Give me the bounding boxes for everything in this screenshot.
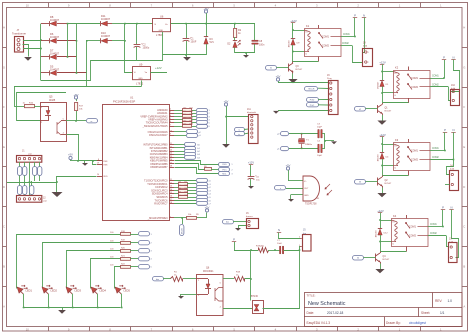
transistor Q2 BC547 (382, 166, 384, 176)
wire opto collector (66, 120, 76, 122)
title block frame (305, 293, 463, 327)
svg-text:5: 5 (170, 118, 171, 120)
wire P to R19 (234, 250, 258, 252)
svg-text:D: D (3, 185, 5, 189)
svg-text:K1: K1 (306, 24, 310, 28)
wire bridge vertical c (86, 41, 88, 87)
wire J4 pin2 stub (445, 184, 450, 186)
svg-text:D: D (463, 185, 465, 189)
wire K4 bottom (380, 241, 392, 243)
svg-text:B: B (463, 265, 465, 269)
crystal Y1 20MHz (301, 134, 303, 139)
wire K3 contact common return (383, 175, 409, 177)
net flag tx bluetooth (235, 132, 245, 136)
svg-text:Prog: Prog (327, 77, 332, 80)
svg-text:1N4007: 1N4007 (378, 81, 380, 89)
svg-text:P: P (233, 238, 235, 242)
LED LED3 (64, 282, 77, 295)
svg-text:GND: GND (159, 30, 164, 32)
wire rectified rail to C2 (125, 23, 153, 25)
svg-text:17: 17 (170, 199, 172, 201)
svg-text:1/1: 1/1 (440, 311, 445, 315)
wire crystal caps to ground (322, 133, 325, 135)
net flags switch row 1 (19, 162, 21, 167)
wire K1 COM2 to J8 (353, 46, 363, 63)
flyback diode D12 1N4007 (380, 220, 382, 229)
svg-text:Date:: Date: (307, 311, 315, 315)
svg-text:H: H (3, 26, 5, 30)
pin VDD 20 (97, 176, 102, 178)
svg-text:COM2: COM2 (411, 159, 419, 162)
svg-text:19: 19 (97, 163, 99, 165)
svg-text:bluetooth: bluetooth (247, 111, 257, 114)
connector J5 fan (303, 235, 312, 252)
resistor R18 1k (235, 277, 245, 282)
svg-text:GND: GND (304, 195, 309, 197)
svg-text:COM1: COM1 (430, 224, 437, 226)
svg-text:1N4007: 1N4007 (376, 229, 378, 237)
wire rectified rail to U9 (125, 24, 133, 73)
svg-text:COM2: COM2 (342, 43, 349, 45)
svg-text:+12V: +12V (155, 66, 162, 70)
svg-text:V-: V- (394, 95, 396, 97)
svg-text:+5V: +5V (73, 93, 78, 97)
svg-text:1000u: 1000u (143, 47, 150, 50)
connector J11 bluetooth (249, 115, 259, 144)
net flag zero-cross out (76, 120, 86, 122)
capacitor C7 10nF (280, 246, 281, 254)
svg-text:F: F (463, 105, 465, 109)
net flag MCLR prog (305, 87, 318, 91)
svg-text:N: N (363, 14, 365, 18)
capacitor C1 10UF (186, 24, 188, 38)
svg-text:1N4007: 1N4007 (101, 34, 111, 38)
svg-text:1N4007: 1N4007 (289, 39, 291, 47)
svg-text:16: 16 (170, 196, 172, 198)
svg-text:COM2: COM2 (411, 86, 419, 89)
ground LED bus (62, 308, 64, 311)
ground TSOP (288, 199, 294, 202)
svg-text:COM1: COM1 (343, 34, 350, 36)
LED LED4 (89, 282, 102, 295)
svg-text:22: 22 (170, 146, 172, 148)
flyback diode D1 1N4007 (382, 72, 384, 81)
svg-text:PIC16F2626-ESP: PIC16F2626-ESP (113, 100, 135, 104)
diode D11 1N4007 (101, 21, 108, 26)
ground transformer (24, 57, 32, 61)
pin VSS 19 (97, 164, 102, 166)
svg-text:COM2: COM2 (409, 235, 417, 238)
wire LED2 to ground bus (48, 294, 50, 308)
wire Q6 cathode to ground (181, 294, 197, 296)
resistor R16 (25, 105, 35, 108)
svg-text:N: N (450, 206, 452, 210)
wire LED4 to ground bus (97, 294, 99, 308)
svg-text:3: 3 (232, 174, 233, 176)
svg-text:27: 27 (170, 162, 172, 164)
net flag PGC prog (307, 103, 319, 107)
resistor R9 10k pullup (187, 217, 197, 220)
svg-text:COM1: COM1 (411, 150, 419, 153)
svg-text:LED5: LED5 (124, 289, 131, 293)
svg-text:20: 20 (97, 174, 99, 176)
net flag LED4 (139, 257, 150, 261)
svg-text:COM1: COM1 (411, 77, 419, 80)
regulator U9 L7812 (133, 67, 151, 80)
svg-text:dim: dim (156, 279, 160, 281)
IR arrows into TSOP (325, 184, 332, 195)
resistor R1 1k (171, 277, 183, 282)
wire +5V rail (171, 23, 255, 25)
svg-text:26: 26 (170, 159, 172, 161)
svg-text:GND: GND (138, 78, 143, 80)
wire Q6 pin6 to R18 (223, 278, 234, 280)
net label COM1 K3 (430, 150, 445, 152)
wire Q6 pin4 to triac (223, 308, 252, 310)
border zone ticks top/bottom (48, 3, 50, 8)
svg-text:LED2: LED2 (51, 289, 58, 293)
net flags switch row 2 (19, 181, 21, 186)
ground Q1 (382, 115, 384, 121)
wire buzzer pin2 to ground (239, 226, 247, 229)
microcontroller U1 PIC16F2626-ESP (103, 105, 170, 221)
svg-text:H: H (463, 26, 465, 30)
ground Q6 (178, 296, 184, 299)
svg-text:V-: V- (392, 244, 394, 246)
ground at VSS (84, 161, 86, 163)
svg-text:8: 8 (98, 159, 99, 161)
wire K1 top (293, 30, 305, 32)
svg-text:U6: U6 (160, 15, 164, 19)
svg-text:P: P (354, 14, 356, 18)
svg-text:U9: U9 (139, 62, 143, 66)
wire LED3 to ground bus (72, 294, 74, 308)
net flag LED1 (139, 232, 150, 236)
svg-text:Q5: Q5 (49, 94, 53, 98)
net flag ir out (275, 186, 286, 190)
relay K3 (394, 143, 431, 171)
svg-text:10pF: 10pF (317, 126, 323, 128)
net flag MCLR vertical (182, 218, 184, 224)
svg-text:J10: J10 (451, 84, 456, 87)
power flag +5V bluetooth (224, 103, 227, 106)
wire LED5 to ground bus (121, 294, 123, 308)
wire K2 contact common return (383, 102, 409, 104)
relay K1 contact pins (318, 25, 320, 29)
connector J4 load (450, 171, 459, 191)
net flag LED3 (139, 249, 150, 253)
svg-text:KBI3/PGD/RB7: KBI3/PGD/RB7 (150, 166, 168, 169)
svg-text:PGD: PGD (310, 100, 315, 102)
wire K2 bottom (382, 92, 394, 94)
connector J6 buzzer (247, 219, 259, 229)
svg-text:BT136: BT136 (251, 296, 258, 298)
svg-text:TITLE:: TITLE: (307, 294, 316, 298)
svg-text:24: 24 (170, 153, 172, 155)
svg-text:MCLR: MCLR (309, 88, 315, 90)
resistor R19 47 (259, 248, 269, 253)
net flag buzzer (223, 220, 234, 224)
svg-text:LED4: LED4 (100, 289, 107, 293)
wire K4 top (380, 220, 392, 222)
svg-text:2: 2 (170, 108, 171, 110)
ground Q4 (380, 264, 382, 270)
wire LED2 column (43, 243, 121, 289)
wire ground bus regulators (137, 60, 162, 62)
svg-text:Transformer: Transformer (12, 32, 26, 36)
ground bluetooth (222, 144, 230, 148)
svg-text:New Schematic: New Schematic (308, 301, 346, 307)
svg-text:Sheet:: Sheet: (421, 311, 430, 315)
svg-text:1N4007: 1N4007 (50, 35, 60, 39)
wire U9 output +12V (150, 72, 167, 74)
svg-text:MOC3021: MOC3021 (203, 271, 214, 273)
svg-text:BC547: BC547 (383, 259, 390, 261)
wire crystal top (289, 133, 318, 135)
wire transformer pin3 (23, 48, 41, 50)
capacitor C3 10pF (318, 130, 319, 138)
wire K2 top (382, 71, 394, 73)
svg-text:+5V: +5V (205, 205, 210, 209)
svg-text:TSOP1738: TSOP1738 (305, 204, 317, 206)
diode D5 1N4007 (41, 72, 49, 74)
svg-text:A: A (463, 304, 465, 308)
wire K4 COM2 to J3 (447, 236, 449, 247)
wire K4 contact common return (381, 251, 407, 253)
diode D10 1N4007 (101, 38, 108, 43)
svg-text:+5V: +5V (286, 164, 291, 168)
svg-text:BC547: BC547 (385, 183, 392, 185)
wire switch common (29, 162, 31, 196)
wire bluetooth ground drop (226, 117, 228, 144)
svg-text:18: 18 (170, 202, 172, 204)
resistor R17 10k (74, 96, 77, 99)
wire TSOP GND (291, 194, 303, 196)
connector J1 switches (17, 156, 42, 163)
wire LED3 column (67, 251, 121, 289)
svg-text:28: 28 (170, 166, 172, 168)
net label COM2 K3 (430, 159, 454, 161)
svg-text:R19(47): R19(47) (256, 245, 264, 247)
svg-text:G: G (3, 65, 5, 69)
svg-text:+5V: +5V (68, 153, 73, 157)
svg-text:BC547: BC547 (296, 69, 303, 71)
wire LED ground bus (23, 307, 121, 309)
svg-text:1N4007: 1N4007 (101, 17, 111, 21)
svg-text:12: 12 (170, 182, 172, 184)
svg-text:10: 10 (26, 3, 30, 7)
svg-text:LED3: LED3 (75, 289, 82, 293)
svg-text:14: 14 (170, 189, 172, 191)
relay K3 contact pins (408, 139, 410, 143)
svg-text:1N4007: 1N4007 (50, 51, 60, 55)
wire U9 ground to bus (141, 81, 143, 87)
svg-text:B: B (3, 265, 5, 269)
regulator U6 L7805 (153, 19, 171, 32)
net label COM1 K2 (430, 78, 444, 80)
ground prog (273, 111, 279, 114)
power flag +5V rail (204, 10, 207, 13)
svg-text:6: 6 (170, 121, 171, 123)
relay K1 (305, 29, 342, 57)
svg-text:7: 7 (170, 124, 171, 126)
power flag +5V prog (276, 78, 279, 81)
svg-text:10: 10 (170, 130, 172, 132)
svg-text:10: 10 (26, 327, 30, 331)
relay K2 contact pins (408, 67, 410, 71)
wire R18 to triac gate node (245, 279, 251, 301)
diode D6 1N4007 (41, 40, 49, 42)
svg-text:L7812: L7812 (136, 81, 144, 85)
wire LED1 to ground bus (23, 294, 25, 308)
diode D7 1N4007 (41, 56, 49, 58)
svg-text:E: E (3, 145, 5, 149)
net label COM2 K1 (341, 45, 352, 47)
relay K4 contact pins (406, 215, 408, 219)
svg-text:21: 21 (170, 143, 172, 145)
svg-text:2017-02-18: 2017-02-18 (327, 311, 344, 315)
LED LED1 (15, 282, 28, 295)
svg-text:P: P (442, 206, 444, 210)
connector J7 Transformer (15, 37, 24, 53)
wire prog ground (278, 110, 328, 112)
svg-text:OSC1/CLKI/RA7: OSC1/CLKI/RA7 (149, 134, 168, 137)
svg-text:2: 2 (368, 62, 369, 64)
svg-text:K4: K4 (393, 214, 397, 218)
pin VSS 8 (97, 160, 102, 162)
svg-text:13: 13 (170, 186, 172, 188)
svg-text:+5V: +5V (276, 75, 281, 79)
border zone ticks left/right (2, 47, 6, 49)
svg-text:1N4007: 1N4007 (50, 18, 60, 22)
svg-text:V-: V- (305, 54, 307, 56)
svg-text:PGD: PGD (222, 164, 227, 166)
wire bridge negative return (41, 61, 137, 81)
ground crystal (331, 141, 337, 144)
wire opto emitter to VSS (67, 135, 101, 161)
wire switch common to ground (30, 182, 58, 184)
power flag +5V TSOP (286, 167, 289, 170)
svg-text:N: N (278, 228, 280, 232)
svg-text:2: 2 (232, 169, 233, 171)
flyback diode D4 1N4007 (382, 144, 384, 153)
svg-text:EasyEDA V4.1.3: EasyEDA V4.1.3 (307, 321, 331, 325)
svg-text:COM1: COM1 (432, 76, 439, 78)
svg-text:G: G (463, 65, 465, 69)
zener diode D3 5V1 (206, 24, 208, 37)
wire LED5 column (115, 267, 121, 289)
wire TSOP V+ (288, 180, 303, 182)
wire VDD to ground rail (57, 177, 97, 193)
svg-text:+12V: +12V (379, 60, 386, 64)
wire indicator ground row (235, 52, 255, 54)
svg-text:tx: tx (238, 133, 240, 136)
capacitor C4 10pF (318, 144, 319, 152)
net flag input K4 (353, 256, 364, 261)
net label COM1 K1 (341, 36, 355, 38)
IR receiver U8 TSOP1738 (303, 176, 320, 201)
svg-text:RX/DT/RC7: RX/DT/RC7 (154, 203, 168, 206)
net flag LED2 (139, 241, 150, 245)
svg-text:BC547: BC547 (385, 111, 392, 113)
wire transformer pin2 to ground (23, 45, 29, 57)
connector J2 switches (17, 196, 42, 203)
LED D2 power indicator (233, 40, 237, 42)
svg-text:1: 1 (368, 52, 369, 54)
svg-text:_SS/AN4/C2OUT/RA5: _SS/AN4/C2OUT/RA5 (141, 125, 168, 128)
svg-text:+12V: +12V (248, 161, 254, 165)
wire bridge to D11 (68, 23, 101, 25)
optocoupler Q6 MOC3021 (197, 275, 224, 316)
connector J8 load (363, 49, 373, 67)
svg-text:buzzer: buzzer (246, 215, 253, 218)
svg-text:PGC: PGC (222, 169, 227, 171)
wire K3 to J4 (447, 160, 454, 175)
svg-text:1.0: 1.0 (448, 299, 453, 303)
wire LED1 column (17, 235, 121, 289)
wire K3 top (382, 144, 394, 146)
wire transformer pin1 (23, 40, 41, 42)
svg-text:K3: K3 (395, 138, 399, 142)
net flag input K2 (355, 107, 366, 112)
wire K3 bottom (382, 165, 394, 167)
net flag LED5 (139, 265, 150, 269)
svg-text:MCLR: MCLR (182, 228, 184, 234)
wire K1 contact common return (293, 61, 319, 63)
ground Q3 (292, 74, 294, 80)
power flag +5V MCLR (206, 213, 208, 218)
svg-text:10pF: 10pF (317, 155, 323, 157)
net flag dim input (153, 277, 164, 281)
wire ac sense drop (14, 87, 16, 106)
svg-text:K2: K2 (395, 65, 399, 69)
svg-text:COM2: COM2 (432, 85, 439, 87)
svg-text:F: F (3, 105, 5, 109)
svg-text:100n: 100n (259, 43, 265, 46)
connector J10 load (451, 90, 460, 106)
svg-text:15: 15 (170, 192, 172, 194)
svg-text:REV:: REV: (435, 299, 442, 303)
connector J9 Prog (329, 81, 339, 115)
optocoupler Q5 4N25 (41, 103, 67, 142)
wire crystal bottom (289, 148, 318, 150)
ground Q2 (382, 188, 384, 194)
capacitor C6 10u (248, 176, 255, 178)
svg-text:P: P (443, 56, 445, 60)
svg-text:10UF: 10UF (191, 41, 197, 44)
svg-text:+5V: +5V (203, 7, 208, 11)
wire opto return bus (17, 92, 66, 94)
svg-text:C: C (3, 225, 5, 229)
svg-text:COM1: COM1 (432, 148, 439, 150)
svg-text:+5V: +5V (224, 100, 229, 104)
svg-text:COM2: COM2 (322, 45, 330, 48)
wire LED4 column (91, 259, 121, 289)
svg-text:4N25: 4N25 (49, 98, 56, 102)
svg-text:COM2: COM2 (430, 233, 437, 235)
wire prog +5V to J9 pin1 (278, 82, 328, 84)
svg-text:1: 1 (232, 164, 233, 166)
svg-text:20MHz: 20MHz (305, 144, 312, 146)
wire ac sense bus (14, 86, 141, 88)
svg-text:10nF: 10nF (277, 243, 283, 245)
connector J3 load (449, 243, 458, 263)
svg-text:COM2: COM2 (432, 157, 439, 159)
svg-text:buz: buz (226, 222, 229, 224)
wire bluetooth supply (226, 116, 249, 118)
svg-text:3: 3 (170, 112, 171, 114)
wire U6 ground (162, 32, 164, 55)
